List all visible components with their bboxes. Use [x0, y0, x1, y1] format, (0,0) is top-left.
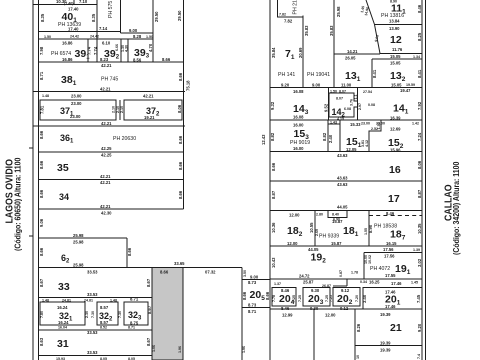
svg-text:19.47: 19.47 — [400, 88, 411, 93]
svg-text:1.34: 1.34 — [413, 55, 420, 59]
svg-text:8.06: 8.06 — [417, 160, 422, 169]
svg-text:7.20: 7.20 — [355, 295, 359, 302]
svg-text:8.90: 8.90 — [368, 224, 373, 233]
svg-text:8.23: 8.23 — [100, 57, 109, 62]
svg-text:4.70: 4.70 — [148, 43, 153, 52]
parcel 13_1 — [334, 6, 380, 87]
tick mark on street line lower — [29, 235, 33, 237]
svg-text:17.56: 17.56 — [384, 254, 395, 259]
svg-text:8.71: 8.71 — [248, 309, 257, 314]
svg-text:21: 21 — [390, 322, 402, 334]
svg-text:35: 35 — [57, 162, 69, 174]
svg-text:25.98: 25.98 — [73, 233, 84, 238]
svg-text:8.66: 8.66 — [178, 72, 183, 81]
svg-text:7.74: 7.74 — [93, 46, 98, 55]
svg-text:2.69: 2.69 — [315, 229, 319, 236]
svg-text:19.59: 19.59 — [406, 83, 415, 87]
svg-text:8.71: 8.71 — [130, 297, 139, 302]
strip 2.40 — [328, 120, 340, 152]
svg-text:9.20: 9.20 — [417, 323, 422, 332]
svg-text:3.02: 3.02 — [417, 258, 422, 267]
svg-text:9.00: 9.00 — [129, 28, 138, 33]
svg-text:23.00: 23.00 — [70, 114, 81, 119]
strip 9.06 — [39, 209, 184, 227]
svg-text:12.43: 12.43 — [261, 134, 266, 145]
parcel 14_3 — [270, 88, 329, 121]
parcel 14_1 — [358, 83, 423, 121]
parcel 17 — [270, 181, 422, 210]
svg-text:16.86: 16.86 — [62, 41, 73, 46]
svg-text:8.46: 8.46 — [417, 4, 422, 13]
parcel 37_2 — [124, 100, 182, 120]
svg-text:0.08: 0.08 — [368, 103, 375, 107]
svg-text:42.21: 42.21 — [100, 174, 111, 179]
parcel 39_1 — [39, 39, 154, 62]
tick mark on street line upper — [29, 147, 33, 149]
svg-text:8.25: 8.25 — [417, 32, 422, 41]
svg-text:9.32: 9.32 — [270, 101, 275, 110]
svg-text:9.00: 9.00 — [312, 82, 321, 87]
svg-text:0.87: 0.87 — [339, 270, 343, 277]
svg-text:10.43: 10.43 — [271, 257, 276, 268]
svg-text:6.66: 6.66 — [115, 44, 119, 51]
svg-text:8.71: 8.71 — [39, 71, 44, 80]
svg-text:11.76: 11.76 — [392, 47, 403, 52]
svg-text:7.45: 7.45 — [416, 294, 421, 303]
svg-text:31: 31 — [57, 338, 69, 350]
svg-text:7.25: 7.25 — [329, 295, 333, 302]
svg-text:8.66: 8.66 — [265, 291, 270, 300]
svg-text:8.67: 8.67 — [147, 305, 152, 314]
svg-text:42.21: 42.21 — [101, 63, 112, 68]
svg-text:8.07: 8.07 — [339, 90, 346, 94]
svg-text:2.52: 2.52 — [371, 127, 378, 131]
svg-text:10: 10 — [356, 355, 360, 359]
parcel 9.00 top — [121, 28, 154, 33]
svg-text:42.25: 42.25 — [101, 146, 112, 151]
parcel 19_2 — [270, 247, 422, 286]
svg-text:15.87: 15.87 — [332, 219, 343, 224]
svg-text:33.53: 33.53 — [87, 330, 98, 335]
svg-text:17.40: 17.40 — [68, 27, 79, 32]
svg-text:1.78: 1.78 — [351, 271, 358, 275]
svg-text:8.40: 8.40 — [332, 213, 339, 217]
row line y309 — [270, 308, 422, 310]
svg-text:29.50: 29.50 — [177, 10, 182, 21]
svg-text:8.73: 8.73 — [248, 303, 257, 308]
svg-text:2.97: 2.97 — [358, 103, 362, 110]
svg-text:17.56: 17.56 — [383, 247, 394, 252]
parcel 37_1 — [40, 100, 117, 120]
svg-text:1.50: 1.50 — [44, 35, 51, 39]
row line y87.5 — [270, 87, 422, 89]
svg-text:PH 141: PH 141 — [278, 72, 295, 78]
svg-text:8.66: 8.66 — [39, 160, 44, 169]
svg-text:17.46: 17.46 — [385, 304, 396, 309]
svg-text:7.30: 7.30 — [91, 311, 95, 318]
svg-text:8.26: 8.26 — [356, 323, 361, 332]
east parcels right edge — [421, 0, 423, 360]
svg-text:8.52: 8.52 — [100, 326, 107, 330]
svg-text:PH 575: PH 575 — [108, 1, 114, 18]
svg-text:42.30: 42.30 — [101, 211, 112, 216]
svg-text:PH 2185: PH 2185 — [293, 0, 299, 15]
svg-text:7.78: 7.78 — [272, 295, 276, 302]
svg-text:1.43: 1.43 — [330, 121, 337, 125]
svg-text:9.52: 9.52 — [324, 103, 329, 112]
svg-text:10.55: 10.55 — [309, 222, 314, 233]
svg-text:25.98: 25.98 — [73, 263, 84, 268]
parcel 19_1 — [364, 247, 422, 279]
svg-text:2.40: 2.40 — [328, 134, 333, 143]
svg-text:8.41: 8.41 — [372, 69, 377, 78]
svg-text:42.25: 42.25 — [101, 153, 112, 158]
svg-text:42.21: 42.21 — [100, 180, 111, 185]
row line y210.5 — [270, 210, 422, 212]
svg-text:12.00: 12.00 — [289, 213, 300, 218]
svg-text:7.98: 7.98 — [39, 46, 44, 55]
svg-text:1.45: 1.45 — [411, 281, 418, 285]
parcel 07.32 — [174, 261, 247, 360]
svg-text:8.67: 8.67 — [39, 278, 44, 287]
svg-text:15.05: 15.05 — [390, 54, 401, 59]
svg-text:8.66: 8.66 — [178, 161, 183, 170]
parcel 13_2 — [372, 54, 422, 88]
gray parcel — [152, 268, 183, 360]
svg-text:25.87: 25.87 — [303, 280, 314, 285]
svg-text:PH 20630: PH 20630 — [113, 136, 136, 142]
svg-text:24.72: 24.72 — [299, 274, 310, 279]
svg-text:(Código: 34200) Altura: 1100: (Código: 34200) Altura: 1100 — [452, 162, 462, 255]
parcel 38_1 — [39, 57, 191, 92]
svg-text:16.24: 16.24 — [58, 320, 69, 325]
svg-text:8.46: 8.46 — [386, 211, 395, 216]
svg-text:1.96: 1.96 — [242, 346, 246, 353]
parcel 12 — [374, 26, 422, 54]
svg-text:4.30: 4.30 — [125, 45, 129, 52]
svg-text:7.74: 7.74 — [87, 46, 92, 55]
parcel 35 — [39, 152, 184, 179]
svg-text:8.67: 8.67 — [146, 278, 151, 287]
svg-text:15.33: 15.33 — [350, 122, 361, 127]
svg-text:14.21: 14.21 — [347, 49, 358, 54]
west parcels left edge — [38, 0, 40, 360]
svg-text:9.06: 9.06 — [39, 218, 44, 227]
parcel 36_1 — [33, 121, 185, 151]
svg-text:8.63: 8.63 — [39, 337, 44, 346]
street label CALLAO — [442, 162, 462, 255]
svg-text:24.42: 24.42 — [70, 35, 79, 39]
svg-text:1.42: 1.42 — [412, 122, 419, 126]
svg-text:27.54: 27.54 — [363, 90, 372, 94]
parcel 39_3 — [121, 34, 153, 63]
svg-text:8.66: 8.66 — [178, 190, 183, 199]
parcel 20_2 — [329, 288, 360, 312]
svg-text:16.00: 16.00 — [293, 146, 304, 151]
svg-text:8.66: 8.66 — [178, 135, 183, 144]
svg-text:25.98: 25.98 — [73, 240, 84, 245]
svg-text:43.63: 43.63 — [337, 182, 348, 187]
svg-text:10.35: 10.35 — [417, 223, 422, 234]
svg-text:8.87: 8.87 — [417, 189, 422, 198]
street line Lagos Ovidio — [32, 0, 34, 360]
svg-text:33.65: 33.65 — [174, 261, 185, 266]
svg-text:7.24: 7.24 — [417, 132, 422, 141]
svg-text:PH 4072: PH 4072 — [370, 266, 390, 272]
dims row above 37 — [33, 92, 185, 99]
svg-text:8.71: 8.71 — [128, 326, 135, 330]
svg-text:3.50: 3.50 — [243, 270, 247, 277]
svg-text:7.92: 7.92 — [417, 101, 422, 110]
bottom parcel 12.00 — [354, 309, 356, 360]
street label LAGOS OVIDIO — [3, 158, 23, 251]
svg-text:1.50: 1.50 — [330, 90, 337, 94]
parcel PH 575 strip — [99, 0, 121, 33]
parcel 18_2 — [271, 211, 315, 247]
svg-text:17.55: 17.55 — [385, 273, 396, 278]
svg-text:16.04: 16.04 — [58, 326, 67, 330]
parcel 14_2 — [329, 90, 362, 121]
svg-text:16.24: 16.24 — [57, 305, 68, 310]
svg-text:1.37: 1.37 — [274, 282, 281, 286]
svg-text:19.39: 19.39 — [380, 312, 391, 317]
svg-text:33.53: 33.53 — [87, 270, 98, 275]
svg-text:13.90: 13.90 — [389, 26, 400, 31]
svg-text:15.05: 15.05 — [391, 82, 402, 87]
svg-text:34: 34 — [59, 192, 69, 202]
parcel 11_1 — [360, 0, 422, 25]
svg-text:43.63: 43.63 — [337, 176, 348, 181]
svg-text:8.28: 8.28 — [133, 34, 142, 39]
svg-text:8.67: 8.67 — [146, 337, 151, 346]
svg-text:8.82: 8.82 — [270, 132, 275, 141]
svg-text:35.83: 35.83 — [304, 25, 309, 36]
svg-text:16.00: 16.00 — [293, 123, 304, 128]
svg-text:8.82: 8.82 — [322, 132, 327, 141]
svg-text:0.34: 0.34 — [360, 280, 367, 284]
svg-text:7.4: 7.4 — [417, 354, 421, 359]
svg-text:7.14: 7.14 — [99, 26, 108, 31]
svg-text:16.25: 16.25 — [369, 280, 380, 285]
top cut parcels row — [33, 0, 97, 4]
svg-text:42.21: 42.21 — [143, 94, 154, 99]
parcel 39_2 — [93, 39, 121, 62]
parcel PH 2185 top box — [278, 0, 304, 24]
dims row above 20 boxes — [274, 270, 418, 288]
central column west edge — [269, 0, 271, 360]
svg-text:8.73: 8.73 — [248, 280, 257, 285]
svg-text:1.39: 1.39 — [413, 248, 420, 252]
parcel 34 — [39, 180, 184, 210]
svg-text:19.39: 19.39 — [380, 341, 391, 346]
svg-text:8.57: 8.57 — [100, 320, 109, 325]
svg-text:8.66: 8.66 — [160, 270, 169, 275]
svg-text:33.53: 33.53 — [87, 350, 98, 355]
svg-text:(7.40): (7.40) — [64, 2, 74, 6]
svg-text:7.82: 7.82 — [279, 13, 286, 17]
svg-text:1.96: 1.96 — [178, 346, 182, 353]
svg-text:8.35: 8.35 — [91, 13, 96, 22]
parcel 20_4 — [272, 288, 296, 318]
svg-text:8.57: 8.57 — [100, 305, 109, 310]
svg-text:23.00: 23.00 — [71, 101, 82, 106]
svg-text:75.18: 75.18 — [186, 80, 191, 91]
svg-text:PH 745: PH 745 — [101, 77, 118, 83]
svg-text:24.42: 24.42 — [90, 35, 99, 39]
svg-text:25.98: 25.98 — [336, 6, 341, 17]
strip between 37_1 and 37_2 — [116, 100, 124, 120]
svg-text:7.25: 7.25 — [298, 295, 302, 302]
strip 29.50 — [153, 0, 184, 209]
svg-text:2.30: 2.30 — [85, 311, 89, 318]
svg-text:17: 17 — [388, 193, 400, 205]
svg-text:8.66: 8.66 — [39, 247, 44, 256]
svg-text:8.66: 8.66 — [39, 130, 44, 139]
svg-text:8.87: 8.87 — [271, 190, 276, 199]
row line y120 — [270, 119, 422, 121]
parcel 6_2 — [39, 233, 133, 268]
svg-text:12.00: 12.00 — [287, 241, 298, 246]
parcel 20_1 — [362, 281, 422, 309]
parcel 32_1 — [40, 302, 95, 325]
diagonal boundary — [366, 0, 380, 54]
svg-text:16.08: 16.08 — [293, 89, 304, 94]
svg-text:15.05: 15.05 — [390, 61, 401, 66]
parcel 20_3 — [298, 288, 336, 318]
svg-text:07.32: 07.32 — [205, 270, 216, 275]
parcel 16 — [270, 152, 422, 181]
svg-text:42.21: 42.21 — [100, 87, 111, 92]
svg-text:16.08: 16.08 — [293, 115, 304, 120]
svg-text:1.50: 1.50 — [146, 35, 153, 39]
svg-text:19.39: 19.39 — [380, 348, 391, 353]
svg-text:1.48: 1.48 — [42, 94, 49, 98]
parcel 18_1 — [315, 211, 369, 247]
svg-text:16: 16 — [389, 164, 401, 176]
svg-text:7.80: 7.80 — [40, 311, 44, 318]
svg-text:7.30: 7.30 — [118, 311, 122, 318]
svg-text:7.82: 7.82 — [284, 19, 293, 24]
svg-text:35.84: 35.84 — [271, 47, 276, 58]
svg-text:12.00: 12.00 — [325, 313, 336, 318]
svg-text:10.36: 10.36 — [271, 222, 276, 233]
svg-text:PH 9339: PH 9339 — [319, 234, 339, 240]
dims row above 32 — [39, 298, 153, 303]
svg-text:10.02: 10.02 — [368, 255, 372, 264]
svg-text:23.00: 23.00 — [71, 94, 82, 99]
svg-text:PH 19041: PH 19041 — [307, 72, 330, 78]
svg-text:(Código: 60650) Altura: 1100: (Código: 60650) Altura: 1100 — [13, 158, 23, 251]
svg-text:13.84: 13.84 — [389, 19, 400, 24]
svg-text:6.08: 6.08 — [344, 107, 351, 111]
dims row under 40_1 — [44, 35, 153, 40]
svg-text:35.83: 35.83 — [329, 25, 334, 36]
svg-text:9.20: 9.20 — [281, 82, 290, 87]
svg-text:23.00: 23.00 — [361, 122, 370, 126]
svg-text:33.53: 33.53 — [87, 292, 98, 297]
parcel 15_1 — [346, 120, 381, 152]
svg-text:12.99: 12.99 — [282, 313, 293, 318]
svg-text:8.66: 8.66 — [242, 291, 247, 300]
parcel 15_2 — [361, 122, 422, 153]
bottom parcel 12.99 — [313, 309, 315, 360]
svg-text:44.05: 44.05 — [337, 205, 348, 210]
svg-text:1.06: 1.06 — [152, 345, 156, 352]
parcel 18_7 dashed — [364, 211, 422, 246]
svg-text:11.00: 11.00 — [341, 82, 352, 87]
svg-text:15.87: 15.87 — [331, 241, 342, 246]
svg-text:8.07: 8.07 — [336, 97, 343, 101]
svg-text:12.69: 12.69 — [390, 127, 401, 132]
parcel 20_5 — [242, 275, 270, 315]
svg-text:7.10: 7.10 — [79, 0, 88, 4]
parcel 32_2 — [97, 302, 122, 325]
svg-text:8.41: 8.41 — [417, 69, 422, 78]
svg-text:2.10: 2.10 — [120, 106, 124, 113]
parcel 7_1 — [271, 16, 303, 88]
svg-text:8.66: 8.66 — [127, 247, 132, 256]
svg-text:12: 12 — [390, 34, 402, 46]
svg-text:3.40: 3.40 — [362, 294, 367, 303]
svg-text:2.10: 2.10 — [112, 106, 116, 113]
parcel PH 19041 — [304, 0, 334, 88]
svg-text:43.63: 43.63 — [337, 153, 348, 158]
svg-text:8.66: 8.66 — [162, 57, 171, 62]
parcel 21 — [355, 312, 422, 359]
svg-text:2.80: 2.80 — [316, 213, 323, 217]
svg-text:16.15: 16.15 — [386, 241, 397, 246]
svg-text:20.69: 20.69 — [298, 47, 303, 58]
parcel 31 — [39, 326, 153, 360]
svg-text:7.25: 7.25 — [292, 295, 296, 302]
parcel 15_3 — [261, 120, 340, 152]
svg-text:17.46: 17.46 — [391, 281, 402, 286]
svg-text:42.21: 42.21 — [100, 204, 111, 209]
row line y246 — [270, 245, 422, 247]
svg-text:16.86: 16.86 — [62, 57, 73, 62]
svg-text:9.00: 9.00 — [250, 275, 259, 280]
svg-text:7.81: 7.81 — [40, 105, 45, 114]
svg-text:8.66: 8.66 — [39, 189, 44, 198]
svg-text:26.05: 26.05 — [345, 56, 356, 61]
svg-text:8.35: 8.35 — [40, 13, 45, 22]
street line Callao — [425, 0, 427, 360]
svg-text:29.50: 29.50 — [154, 11, 159, 22]
svg-text:33: 33 — [58, 281, 70, 293]
svg-text:4.12: 4.12 — [365, 140, 369, 147]
svg-text:8.66: 8.66 — [271, 162, 276, 171]
svg-text:8.06: 8.06 — [177, 104, 182, 113]
parcel 33 — [39, 268, 243, 298]
svg-text:6.10: 6.10 — [102, 41, 111, 46]
parcel 32_3 — [124, 297, 152, 326]
svg-text:42.21: 42.21 — [101, 121, 112, 126]
parcel 40_1 — [39, 0, 121, 62]
svg-text:19.21: 19.21 — [144, 115, 155, 120]
